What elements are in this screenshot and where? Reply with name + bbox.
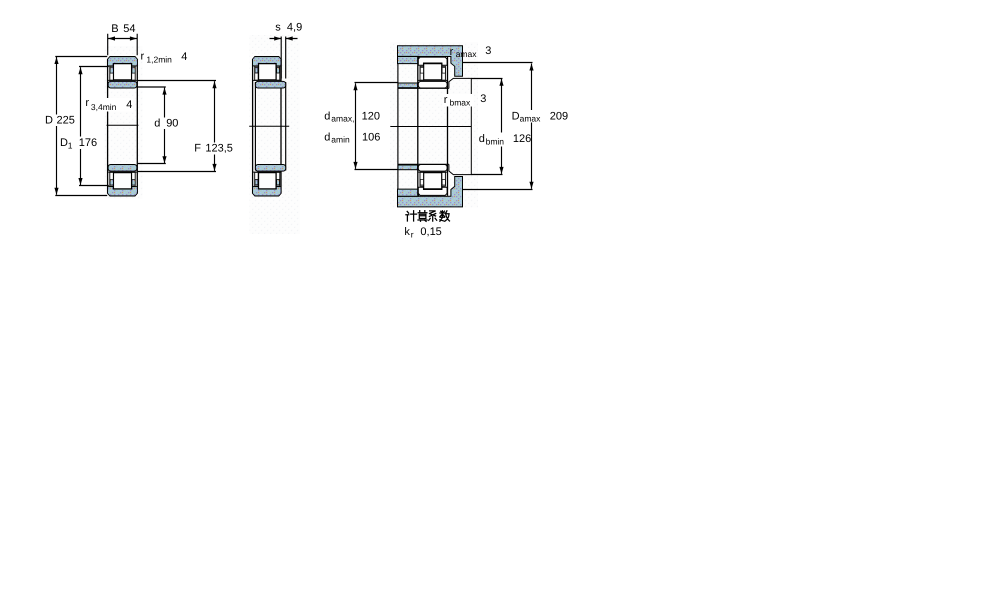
fig1 roller top (113, 64, 131, 80)
svg-text:1,2min: 1,2min (146, 54, 172, 64)
fig3 cage pocket columns top (420, 66, 424, 80)
fig3 cage sections top (420, 68, 423, 74)
d dimension arrows (162, 88, 166, 95)
label D1 176 (59, 137, 99, 150)
fig1 outer ring bottom (108, 187, 137, 195)
svg-text:B: B (111, 23, 118, 35)
svg-text:amax,: amax, (331, 113, 354, 123)
fig3 inner ring bottom (white pill) (418, 165, 447, 172)
svg-text:225: 225 (57, 115, 75, 127)
fig1 roller bottom (113, 173, 131, 189)
label db min 126 (478, 133, 507, 147)
db dimension arrows (499, 79, 503, 86)
svg-text:r: r (444, 94, 448, 106)
svg-text:d: d (324, 111, 330, 123)
shaft bore lines (398, 88, 449, 164)
svg-text:d: d (154, 117, 160, 129)
fig2 outer ring top (blue flanged band) (253, 57, 281, 65)
svg-text:d: d (479, 133, 485, 145)
db dimension extension lines (471, 79, 502, 175)
svg-text:1: 1 (68, 140, 73, 150)
B dimension extension lines (108, 34, 138, 55)
fig3 outer ring top (white flanged band) (418, 57, 447, 65)
fig2 cage sections bottom (255, 180, 258, 185)
fig3 centerline (390, 126, 471, 128)
svg-text:3,4min: 3,4min (91, 102, 117, 112)
s dimension arrows (274, 36, 281, 40)
fig2 raceway top line bottom section (253, 171, 280, 173)
svg-text:0,15: 0,15 (420, 226, 441, 238)
housing bottom (blue) (398, 177, 463, 207)
fig2 roller top (259, 64, 277, 80)
fig2 inner ring side faces through bore (255, 82, 285, 171)
label Da max 209 (510, 110, 543, 123)
d dimension extension lines (138, 87, 166, 164)
svg-text:4,9: 4,9 (287, 22, 302, 34)
shaft shoulder bottom (blue strip) (398, 165, 418, 170)
svg-text:126: 126 (513, 133, 531, 145)
fig2 outer ring bottom (253, 187, 281, 195)
fig2 cage pocket columns top (255, 66, 259, 80)
F dimension extension lines (138, 81, 216, 172)
da dimension extension lines (355, 83, 398, 170)
svg-text:s: s (275, 22, 281, 34)
svg-text:bmax: bmax (450, 97, 472, 107)
fig1 inner ring top (blue pill) (108, 81, 137, 88)
fig3 roller top (424, 64, 442, 80)
F dimension arrows (212, 81, 216, 88)
housing seat bore lines over left step (398, 56, 419, 196)
svg-text:D: D (512, 111, 520, 123)
label r 3,4min 4 (over white) (84, 98, 133, 112)
fig3 raceway bottom line top section (418, 79, 447, 81)
svg-text:r: r (411, 230, 414, 240)
fig1 cage pocket columns bottom (110, 172, 114, 186)
fig1 bearing outline with chamfered corners (108, 57, 138, 196)
D1 dimension extension lines (79, 67, 109, 186)
D1 dimension arrows (78, 67, 82, 74)
figure 3 faint hatched block (390, 42, 478, 208)
svg-text:4: 4 (126, 99, 132, 111)
fig3 inner ring top (white pill) (418, 81, 447, 88)
svg-text:F: F (194, 142, 201, 154)
fig1 raceway bottom line top section (108, 79, 137, 81)
svg-text:r: r (85, 97, 89, 109)
fig3 cage sections bottom (420, 180, 423, 186)
fig2 outer ring outline with chamfered corners (253, 57, 281, 196)
svg-text:D: D (60, 137, 68, 149)
fig2 centerline (249, 125, 289, 127)
fig1 inner ring bottom (blue pill) (108, 165, 137, 172)
s dimension extension lines (281, 37, 286, 79)
fig3 outer ring bottom (418, 187, 447, 195)
fig1 raceway top line bottom section (108, 171, 137, 173)
fig3 bearing side faces (418, 57, 448, 196)
da dimension arrows (353, 83, 357, 90)
shaft shoulder top (blue strip) (398, 83, 418, 88)
Da dimension arrows (529, 64, 533, 71)
shaft right section outline (449, 78, 471, 174)
fig2 raceway bottom line top section (253, 79, 280, 81)
fig1 outer ring top (blue flanged band) (108, 57, 137, 65)
D dimension extension lines (55, 57, 107, 196)
fig2 roller bottom (259, 173, 277, 189)
D1 dimension line (80, 67, 82, 185)
svg-text:amax: amax (520, 114, 542, 124)
svg-text:106: 106 (362, 132, 380, 144)
svg-text:176: 176 (79, 137, 97, 149)
svg-text:amax: amax (456, 49, 478, 59)
label F 123,5 (193, 143, 235, 155)
label 计算系数 (hand drawn glyphs) (406, 211, 450, 222)
D dimension arrows (54, 57, 58, 64)
fig1 cage sections top (110, 68, 113, 74)
B dimension arrows (108, 36, 115, 40)
fig1 cage pocket columns top (110, 66, 114, 80)
svg-text:54: 54 (123, 23, 135, 35)
label rb max 3 (443, 94, 474, 107)
svg-text:4: 4 (181, 51, 187, 63)
label d 90 (153, 118, 180, 130)
F dimension line (214, 81, 216, 171)
fig2 inner ring top (blue pill, shifted right) (255, 81, 285, 88)
D dimension line (56, 57, 58, 195)
figure 1 faint hatched block (105, 46, 143, 199)
svg-text:3: 3 (485, 45, 491, 57)
fig2 inner ring bottom (blue pill, shifted right) (255, 165, 285, 172)
shaft left face line (397, 64, 399, 190)
fig1 cage sections bottom (110, 180, 113, 186)
da dimension line (355, 83, 357, 169)
svg-text:3: 3 (480, 93, 486, 105)
svg-text:90: 90 (166, 117, 178, 129)
fig3 raceway top line bottom section (418, 171, 447, 173)
label D 225 (44, 115, 77, 127)
d dimension line (164, 88, 166, 164)
db dimension line (501, 79, 503, 174)
svg-text:D: D (45, 115, 53, 127)
figure 2 faint hatched block (250, 35, 301, 234)
Da dimension extension lines (463, 63, 533, 190)
svg-text:120: 120 (362, 111, 380, 123)
svg-text:d: d (324, 132, 330, 144)
svg-text:k: k (404, 226, 410, 238)
Da dimension line (531, 64, 533, 189)
fig2 cage sections top (255, 68, 258, 73)
B dimension line (108, 38, 138, 40)
svg-text:bmin: bmin (486, 137, 505, 147)
svg-text:123,5: 123,5 (205, 142, 233, 154)
fig1 centerline (107, 124, 139, 126)
svg-text:r: r (450, 46, 454, 58)
fig3 cage pocket columns bottom (420, 172, 424, 186)
housing top (blue) (398, 46, 463, 76)
svg-text:amin: amin (331, 134, 350, 144)
fig2 cage pocket columns bottom (255, 172, 259, 186)
svg-text:r: r (141, 50, 145, 62)
fig3 roller bottom (424, 173, 442, 189)
svg-text:209: 209 (550, 111, 568, 123)
s dimension lines (270, 38, 298, 40)
